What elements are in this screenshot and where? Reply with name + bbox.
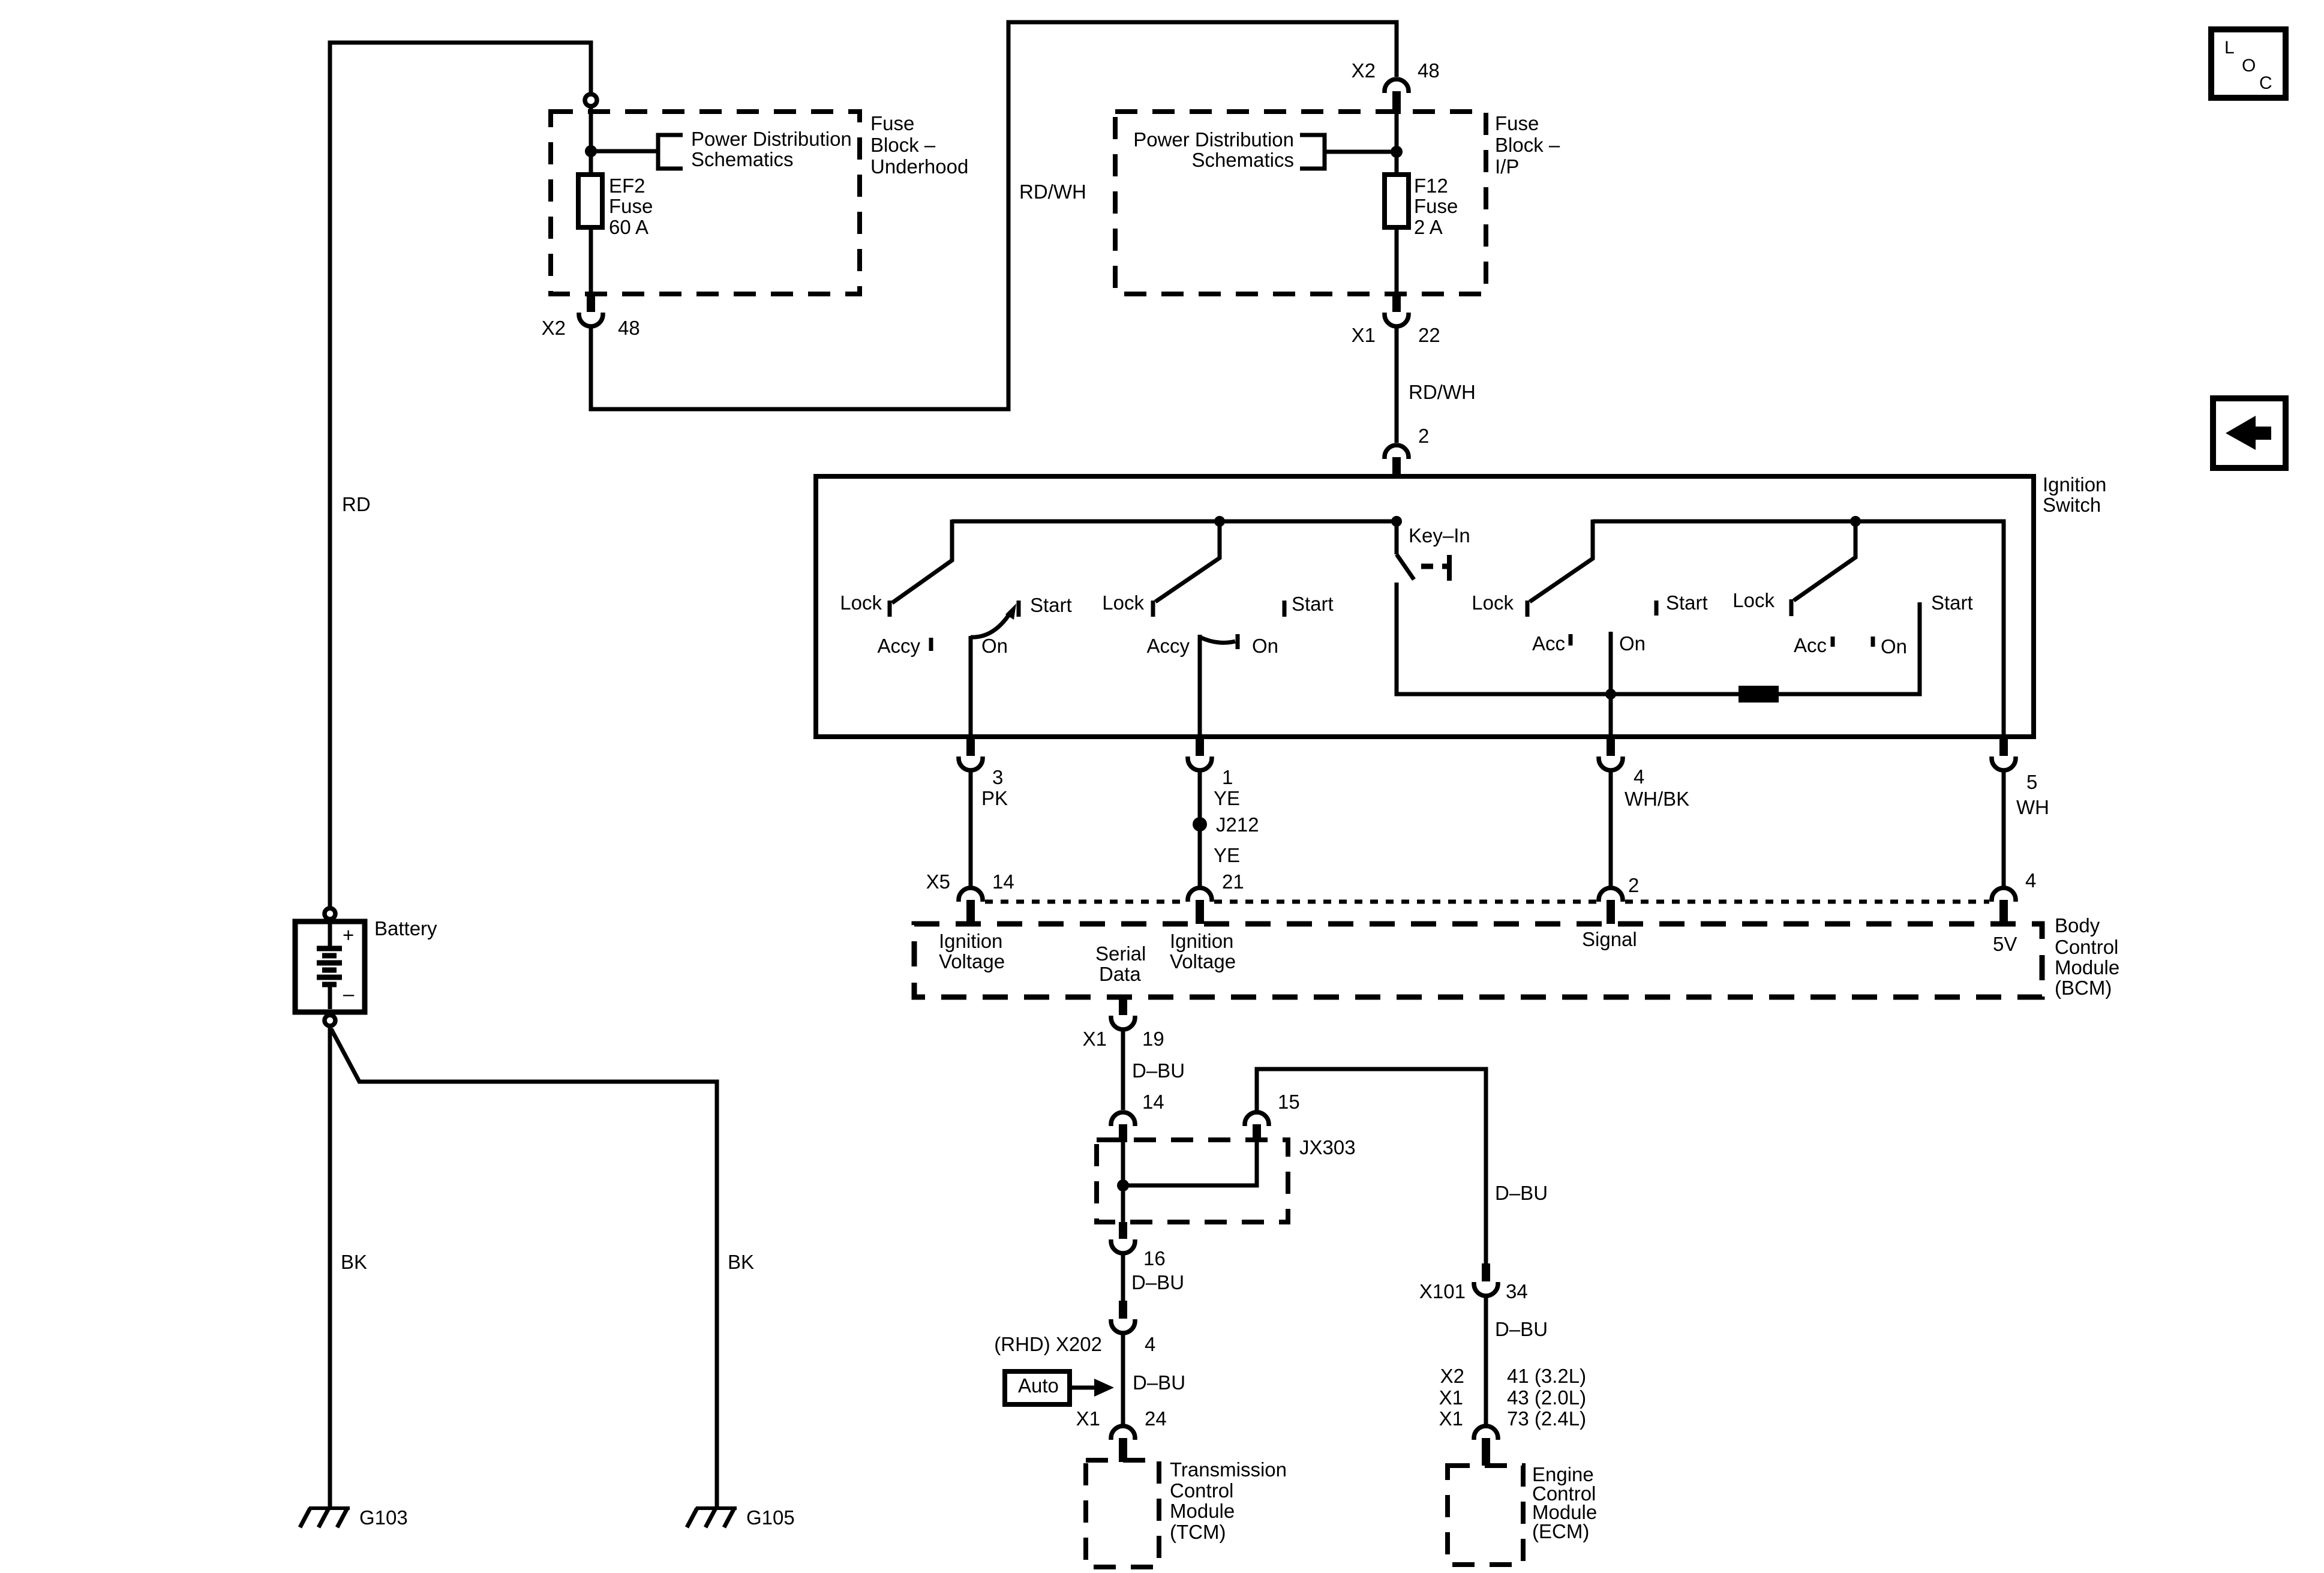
svg-text:PK: PK [981, 787, 1008, 809]
svg-text:5: 5 [2026, 771, 2037, 793]
svg-text:Serial: Serial [1095, 942, 1146, 965]
svg-text:J212: J212 [1216, 813, 1259, 836]
svg-text:Accy: Accy [877, 635, 920, 657]
svg-text:2: 2 [1418, 425, 1429, 447]
svg-text:G103: G103 [359, 1506, 408, 1529]
svg-text:+: + [343, 924, 354, 946]
fuse EF2 60A [578, 175, 602, 227]
svg-text:YE: YE [1214, 844, 1240, 866]
switch wafer 1 blade (Lock position) [892, 520, 952, 603]
svg-text:21: 21 [1222, 870, 1244, 893]
svg-text:24: 24 [1145, 1407, 1167, 1430]
svg-text:O: O [2242, 56, 2256, 76]
svg-text:Ignition: Ignition [2043, 473, 2106, 496]
battery box [295, 921, 365, 1012]
wire WH to BCM pin 4 [2002, 771, 2006, 887]
wire PK to BCM X5-14 [969, 771, 973, 887]
svg-text:X2: X2 [1440, 1365, 1464, 1387]
svg-text:(BCM): (BCM) [2055, 977, 2112, 999]
svg-text:X2: X2 [1352, 59, 1376, 82]
svg-text:F12: F12 [1414, 175, 1448, 197]
wire D-BU serial data down to junction block [1121, 1030, 1125, 1110]
connector pin 15 at JX303 [1253, 1124, 1261, 1142]
switch Key-In actuator stop [1447, 555, 1452, 581]
contact Acc tick wafer 3 [1569, 634, 1573, 646]
connector X2 pin 48 (underhood fuse block output) [587, 294, 595, 312]
svg-text:Start: Start [1666, 592, 1708, 614]
svg-text:2: 2 [1628, 874, 1639, 896]
svg-text:4: 4 [1145, 1333, 1155, 1355]
svg-text:BK: BK [341, 1251, 367, 1273]
contact Accy tick wafer 1 [929, 638, 933, 651]
wire resistor to wafer4 Start contact [1779, 602, 1920, 694]
ground G103 [309, 1506, 350, 1510]
battery positive terminal ring [325, 908, 335, 919]
battery negative terminal ring [325, 1015, 335, 1026]
BCM connector face dotted line [985, 900, 1185, 904]
connector pin 5 (ignition switch output) [1999, 739, 2008, 756]
svg-text:16: 16 [1143, 1247, 1166, 1269]
svg-text:C: C [2259, 73, 2272, 93]
svg-text:48: 48 [618, 317, 640, 339]
svg-text:Signal: Signal [1582, 928, 1637, 950]
svg-text:L: L [2224, 38, 2235, 58]
svg-text:14: 14 [992, 870, 1014, 893]
svg-text:Switch: Switch [2043, 494, 2101, 516]
wire D-BU to X202 [1121, 1254, 1125, 1301]
connector pin 3 (ignition switch output) [966, 739, 975, 756]
wire WH/BK to BCM pin 2 [1609, 771, 1613, 887]
svg-text:15: 15 [1278, 1091, 1300, 1113]
node wafer 2 anchor [1214, 516, 1225, 527]
svg-text:Acc: Acc [1532, 632, 1565, 655]
contact On tick wafer 4 [1871, 637, 1875, 647]
contact Lock tick wafer 1 [888, 601, 892, 617]
svg-text:Start: Start [1292, 593, 1334, 615]
node wafer 4 anchor [1850, 516, 1861, 527]
svg-text:2 A: 2 A [1414, 216, 1443, 238]
wire right output bus inside ignition switch [1593, 521, 2004, 734]
svg-text:60 A: 60 A [609, 216, 648, 238]
wire BK branch to G105 [331, 1029, 717, 1507]
svg-text:22: 22 [1418, 324, 1440, 346]
svg-text:WH: WH [2016, 796, 2049, 818]
wire into underhood fuse block [589, 107, 593, 175]
svg-text:Ignition: Ignition [1170, 930, 1233, 952]
svg-text:–: – [343, 983, 355, 1005]
contact On curve wafer 2 [1200, 637, 1235, 643]
svg-text:Fuse: Fuse [1495, 112, 1539, 134]
wire to fuse F12 [1395, 114, 1399, 175]
svg-text:Transmission: Transmission [1170, 1458, 1287, 1481]
svg-text:On: On [1252, 635, 1278, 657]
wire D-BU to ECM [1484, 1296, 1488, 1427]
svg-text:Start: Start [1931, 592, 1973, 614]
svg-text:YE: YE [1214, 787, 1240, 809]
svg-text:4: 4 [2025, 869, 2036, 891]
svg-text:Key–In: Key–In [1409, 524, 1470, 547]
switch Key-In blade [1397, 554, 1414, 580]
fuse F12 2A [1385, 175, 1409, 227]
svg-text:D–BU: D–BU [1131, 1271, 1184, 1293]
svg-text:Underhood: Underhood [870, 155, 968, 178]
svg-text:48: 48 [1418, 59, 1440, 82]
wire wafer 2 Accy to connector 1 [1198, 635, 1202, 734]
svg-text:34: 34 [1506, 1280, 1528, 1302]
wire Key-In lower contact to resistor line [1397, 583, 1739, 694]
ignition switch box [816, 476, 2034, 737]
wire left feed bus inside ignition switch [952, 520, 1397, 524]
svg-text:Control: Control [2055, 936, 2118, 958]
contact Start tick wafer 3 [1655, 601, 1659, 616]
svg-text:(RHD) X202: (RHD) X202 [994, 1333, 1102, 1355]
wire inside JX303 from pin 14 [1121, 1142, 1125, 1222]
node junction on I/P feed wire [1391, 146, 1403, 158]
svg-text:73 (2.4L): 73 (2.4L) [1507, 1407, 1586, 1430]
svg-text:BK: BK [728, 1251, 754, 1273]
svg-text:On: On [1619, 632, 1646, 655]
svg-text:X5: X5 [926, 870, 950, 893]
svg-text:4: 4 [1634, 766, 1644, 788]
svg-text:X2: X2 [542, 317, 566, 339]
svg-text:Lock: Lock [840, 592, 882, 614]
engine control module ECM dashed box [1448, 1466, 1523, 1565]
svg-text:RD/WH: RD/WH [1409, 381, 1476, 403]
svg-text:D–BU: D–BU [1495, 1182, 1548, 1204]
svg-text:JX303: JX303 [1299, 1136, 1356, 1158]
fuse block I/P dashed box [1115, 112, 1486, 294]
node junction of wafer3 On wire and resistor line [1605, 689, 1616, 700]
svg-text:X101: X101 [1419, 1280, 1466, 1302]
svg-text:Lock: Lock [1472, 592, 1514, 614]
contact Start tick wafer 2 [1283, 601, 1287, 617]
svg-text:Voltage: Voltage [939, 950, 1005, 972]
svg-text:Power Distribution: Power Distribution [691, 128, 852, 150]
switch Key-In actuator dashed link [1421, 564, 1447, 569]
svg-text:1: 1 [1222, 766, 1233, 788]
svg-text:X1: X1 [1352, 324, 1376, 346]
fuse block underhood dashed box [551, 112, 860, 294]
svg-text:Power Distribution: Power Distribution [1133, 128, 1294, 151]
svg-text:Block –: Block – [870, 134, 936, 156]
connector X202 pin 4 (RHD) [1119, 1301, 1127, 1319]
wire Key-In feed [1395, 521, 1399, 554]
connector pin 16 (JX303 output) [1119, 1222, 1127, 1239]
svg-text:Schematics: Schematics [1191, 149, 1294, 171]
svg-text:41 (3.2L): 41 (3.2L) [1507, 1365, 1586, 1387]
connector X1 pin 22 (I/P fuse block output) [1392, 294, 1401, 312]
connector pin 1 (ignition switch output) [1196, 739, 1204, 756]
svg-text:14: 14 [1142, 1091, 1164, 1113]
svg-text:Lock: Lock [1733, 589, 1774, 611]
wire RD from battery positive up and over to underhood fuse block [330, 43, 591, 906]
svg-text:3: 3 [992, 766, 1003, 788]
resistor (key-in chime resistor) [1739, 686, 1779, 703]
svg-text:Accy: Accy [1146, 635, 1190, 657]
svg-text:Voltage: Voltage [1170, 950, 1236, 972]
connector pin 4 (ignition switch output) [1607, 739, 1615, 756]
svg-text:Fuse: Fuse [609, 195, 653, 217]
node junction to power distribution schematics (underhood) [585, 145, 597, 157]
node Key-In junction [1391, 516, 1402, 527]
svg-text:Data: Data [1099, 963, 1141, 985]
connector X101 pin 34 [1482, 1263, 1490, 1281]
battery internal plates [328, 924, 332, 946]
svg-text:X1: X1 [1439, 1386, 1463, 1409]
wire BK battery negative to G103 [328, 1028, 332, 1507]
svg-text:Acc: Acc [1794, 634, 1827, 656]
switch wafer 3 blade (Lock position) [1530, 520, 1593, 602]
svg-text:(TCM): (TCM) [1170, 1521, 1226, 1543]
contact Acc tick wafer 4 [1831, 637, 1835, 647]
svg-text:Module: Module [2055, 956, 2119, 978]
svg-text:Ignition: Ignition [939, 930, 1002, 952]
svg-text:I/P: I/P [1495, 155, 1519, 178]
switch wafer 4 blade (Lock position) [1794, 521, 1855, 601]
legend arrow box [2213, 398, 2286, 468]
legend LOC box [2211, 29, 2286, 98]
svg-text:Body: Body [2055, 914, 2100, 936]
contact Lock tick wafer 3 [1526, 601, 1530, 617]
connector at ECM [1474, 1426, 1498, 1440]
svg-text:Battery: Battery [374, 917, 437, 939]
svg-text:WH/BK: WH/BK [1625, 788, 1689, 810]
svg-text:Module: Module [1170, 1500, 1235, 1522]
svg-text:X1: X1 [1083, 1028, 1107, 1050]
splice J212 [1193, 817, 1207, 831]
svg-text:On: On [981, 635, 1008, 657]
contact Start tick wafer 1 [1017, 601, 1021, 617]
bracket to Power Distribution Schematics (I/P) [1300, 135, 1325, 169]
svg-text:G105: G105 [746, 1506, 795, 1529]
body control module BCM dashed box [914, 924, 2042, 997]
wire from fuse F12 to X1-22 [1395, 227, 1399, 294]
switch wafer 2 blade (Lock position) [1155, 521, 1220, 602]
svg-text:EF2: EF2 [609, 175, 645, 197]
junction block JX303 dashed box [1097, 1140, 1288, 1222]
svg-text:X1: X1 [1076, 1407, 1100, 1430]
bracket to Power Distribution Schematics (underhood) [658, 135, 683, 169]
ground G105 [696, 1506, 737, 1510]
svg-text:43 (2.0L): 43 (2.0L) [1507, 1386, 1586, 1409]
contact On wafer 1 with curve to Start [971, 612, 1011, 637]
svg-text:On: On [1881, 635, 1907, 658]
callout Auto box with arrow [1005, 1371, 1070, 1404]
wire RD/WH from X1-22 to ignition switch [1395, 327, 1399, 443]
wire RD/WH from underhood X2-48 over the top to I/P fuse block [591, 22, 1397, 409]
svg-text:D–BU: D–BU [1132, 1059, 1185, 1082]
wire YE to BCM pin 21 [1198, 771, 1202, 887]
wire D-BU from pin 15 over to ECM branch [1257, 1069, 1486, 1263]
transmission control module TCM dashed box [1086, 1460, 1159, 1567]
svg-text:Fuse: Fuse [1414, 195, 1458, 217]
svg-text:X1: X1 [1439, 1407, 1463, 1430]
svg-text:Lock: Lock [1102, 592, 1144, 614]
contact Lock tick wafer 2 [1151, 601, 1155, 617]
connector X1 pin 19 (BCM serial data output) [1119, 997, 1127, 1015]
svg-text:RD: RD [342, 493, 371, 515]
wire wafer 3 On to connector 4 [1609, 632, 1613, 734]
svg-text:Control: Control [1170, 1479, 1233, 1502]
svg-text:Block –: Block – [1495, 134, 1560, 156]
svg-text:19: 19 [1142, 1028, 1164, 1050]
svg-text:5V: 5V [1993, 933, 2017, 955]
svg-text:Schematics: Schematics [691, 148, 794, 170]
svg-text:D–BU: D–BU [1133, 1371, 1185, 1394]
svg-text:RD/WH: RD/WH [1019, 181, 1086, 203]
svg-text:Auto: Auto [1018, 1374, 1059, 1397]
wire D-BU to TCM [1121, 1334, 1125, 1427]
contact Lock tick wafer 4 [1789, 599, 1794, 616]
svg-text:Fuse: Fuse [870, 112, 914, 134]
wire from fuse EF2 to connector [589, 227, 593, 294]
svg-text:D–BU: D–BU [1495, 1318, 1548, 1340]
wire wafer 1 On to connector 3 [969, 636, 973, 734]
svg-text:Start: Start [1030, 594, 1072, 616]
wire junction to pin 15 [1123, 1142, 1257, 1185]
node junction inside JX303 [1117, 1179, 1129, 1191]
svg-text:(ECM): (ECM) [1532, 1520, 1589, 1542]
terminal ring at underhood fuse block input [585, 94, 597, 106]
